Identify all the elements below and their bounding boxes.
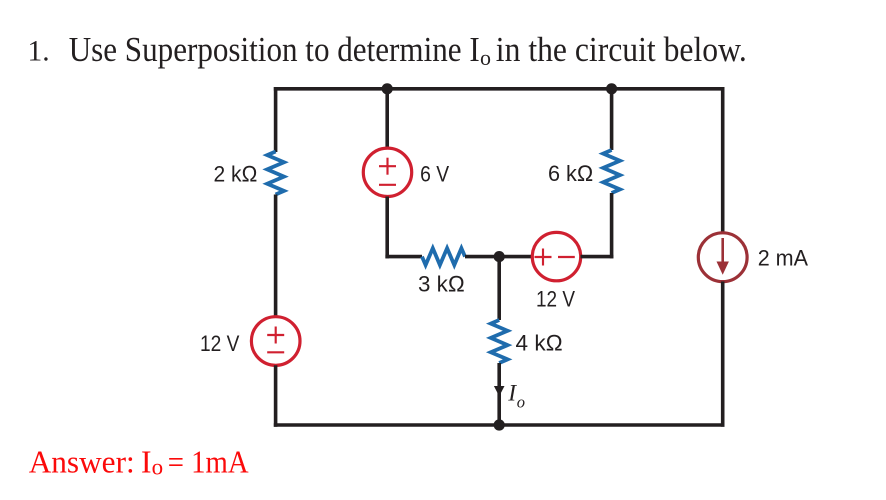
svg-text:o: o xyxy=(517,392,525,411)
wire left vertical lower xyxy=(274,365,278,427)
wire top rail xyxy=(274,87,725,91)
wire middle rail left xyxy=(385,255,422,259)
node top left xyxy=(382,83,393,94)
wire 6k branch lower xyxy=(610,193,614,258)
voltage source 12V left xyxy=(251,317,300,366)
wire right vertical upper xyxy=(721,87,725,233)
voltage source 6V xyxy=(363,148,411,196)
resistor 2 kOhm xyxy=(267,152,284,195)
wire 6k branch upper xyxy=(610,89,614,150)
label Io xyxy=(507,381,525,412)
svg-text:6 kΩ: 6 kΩ xyxy=(548,161,594,186)
title text xyxy=(28,30,747,70)
voltage source 12V middle xyxy=(532,232,580,280)
svg-text:o: o xyxy=(480,45,491,70)
wire center branch lower xyxy=(497,363,501,425)
current arrow Io xyxy=(494,386,505,396)
node bottom xyxy=(494,419,505,430)
wire left vertical middle xyxy=(274,195,278,318)
resistor 4 kOhm xyxy=(491,320,508,363)
node middle xyxy=(494,251,505,262)
answer text xyxy=(29,445,249,480)
wire 6V branch upper xyxy=(385,89,389,148)
svg-text:Answer:: Answer: xyxy=(29,445,135,480)
wire middle rail right xyxy=(581,255,614,259)
svg-text:12 V: 12 V xyxy=(200,331,239,356)
wire left vertical upper xyxy=(274,87,278,152)
wire bottom rail xyxy=(274,423,725,427)
wire 6V branch lower xyxy=(385,197,389,259)
svg-text:2 kΩ: 2 kΩ xyxy=(214,161,258,186)
node top right xyxy=(606,83,617,94)
current source 2mA xyxy=(698,233,747,282)
svg-text:I: I xyxy=(141,445,152,480)
wire middle rail center xyxy=(465,255,534,259)
svg-text:6 V: 6 V xyxy=(420,161,449,186)
wire right vertical lower xyxy=(721,282,725,427)
resistor 3 kOhm xyxy=(422,248,465,265)
svg-text:I: I xyxy=(507,381,517,407)
svg-text:in the circuit below.: in the circuit below. xyxy=(496,30,747,69)
svg-text:= 1mA: = 1mA xyxy=(168,445,249,480)
svg-text:3 kΩ: 3 kΩ xyxy=(418,272,465,297)
svg-text:4 kΩ: 4 kΩ xyxy=(516,331,564,356)
svg-text:2 mA: 2 mA xyxy=(758,246,808,271)
resistor 6 kOhm xyxy=(603,150,620,193)
svg-text:o: o xyxy=(152,454,164,479)
svg-text:1.: 1. xyxy=(28,36,50,68)
wire center branch upper xyxy=(497,257,501,320)
svg-text:Use Superposition to determine: Use Superposition to determine I xyxy=(69,30,480,69)
svg-text:12 V: 12 V xyxy=(536,286,575,311)
